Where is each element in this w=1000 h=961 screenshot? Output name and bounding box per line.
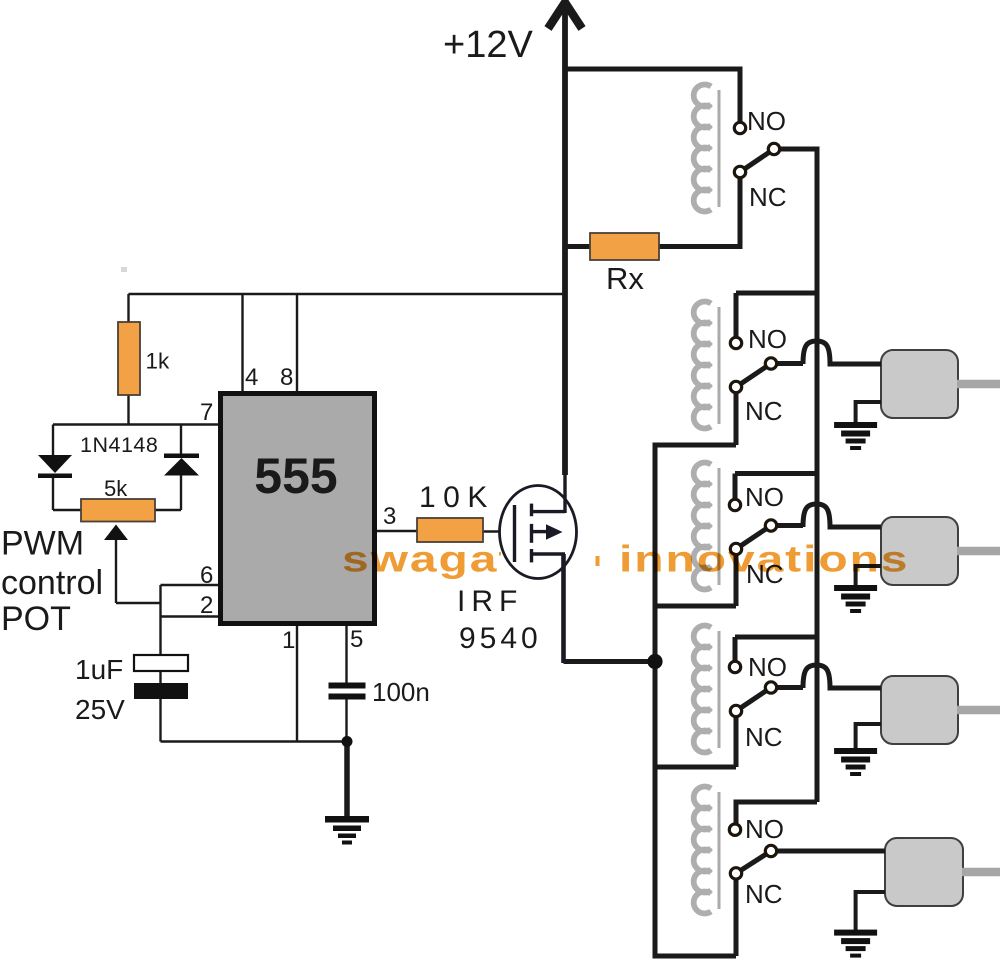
- svg-text:PWM: PWM: [1, 525, 84, 563]
- svg-text:NO: NO: [747, 106, 786, 136]
- svg-text:NO: NO: [745, 482, 784, 512]
- svg-text:8: 8: [280, 364, 293, 391]
- svg-text:555: 555: [254, 448, 337, 504]
- svg-text:NC: NC: [745, 396, 783, 426]
- svg-text:5k: 5k: [104, 476, 128, 501]
- svg-text:9540: 9540: [459, 622, 542, 655]
- svg-text:1k: 1k: [146, 349, 171, 374]
- svg-text:1N4148: 1N4148: [80, 433, 158, 457]
- svg-text:NC: NC: [749, 182, 787, 212]
- svg-text:6: 6: [200, 562, 213, 589]
- svg-text:100n: 100n: [372, 677, 430, 707]
- svg-text:3: 3: [383, 503, 396, 530]
- svg-text:1: 1: [282, 627, 295, 654]
- svg-text:NO: NO: [748, 652, 787, 682]
- svg-text:4: 4: [245, 364, 258, 391]
- svg-text:POT: POT: [1, 600, 71, 638]
- svg-text:NO: NO: [745, 814, 784, 844]
- svg-text:control: control: [1, 564, 103, 602]
- svg-text:IRF: IRF: [457, 585, 523, 618]
- svg-text:25V: 25V: [75, 694, 125, 725]
- svg-text:NC: NC: [745, 722, 783, 752]
- svg-text:+12V: +12V: [443, 24, 533, 66]
- svg-text:5: 5: [350, 626, 363, 653]
- svg-text:Rx: Rx: [606, 261, 644, 296]
- svg-text:NC: NC: [745, 879, 783, 909]
- svg-text:2: 2: [200, 592, 213, 619]
- svg-text:10K: 10K: [419, 481, 495, 514]
- svg-text:7: 7: [200, 399, 213, 426]
- svg-text:1uF: 1uF: [75, 654, 123, 685]
- svg-text:innovations: innovations: [619, 538, 909, 580]
- svg-text:NO: NO: [748, 324, 787, 354]
